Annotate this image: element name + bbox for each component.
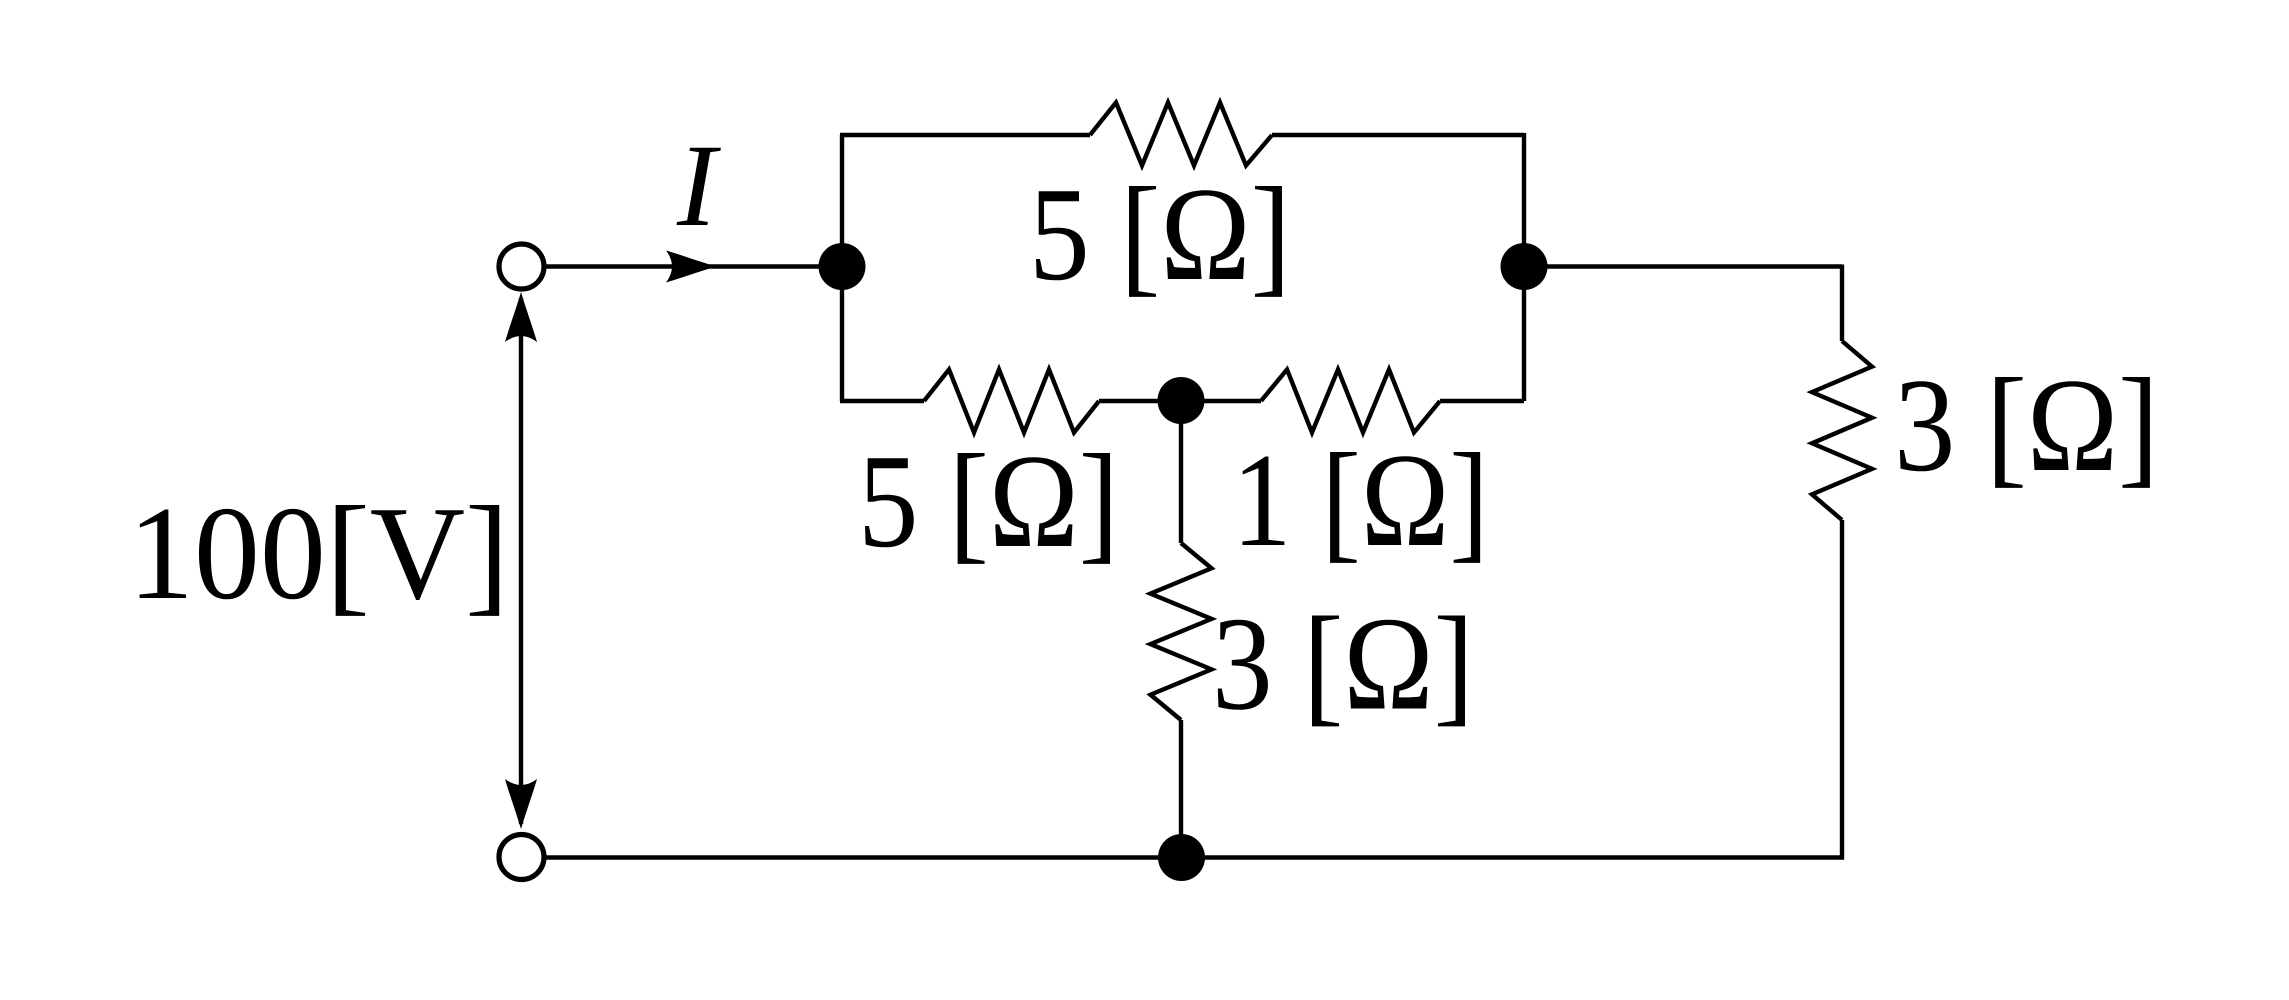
voltage double arrow shaft <box>519 298 523 824</box>
wire: top branch left vertical <box>840 135 844 267</box>
wire: middle branch left horizontal <box>840 399 924 403</box>
voltage arrowhead up <box>505 292 537 342</box>
wire: middle branch right vertical up <box>1522 267 1526 402</box>
wire: top branch right vertical <box>1522 133 1526 267</box>
wire: center node to 1 ohm <box>1181 399 1261 403</box>
terminal bottom (open circle) <box>499 835 544 880</box>
wire: right node to right branch corner <box>1524 264 1842 268</box>
svg-text:100[V]: 100[V] <box>128 479 509 627</box>
svg-text:I: I <box>676 120 721 251</box>
svg-text:1 [Ω]: 1 [Ω] <box>1232 426 1489 574</box>
node C: center junction dot <box>1158 377 1205 424</box>
wire: middle branch to center node <box>1099 399 1181 403</box>
resistor 5 ohm middle-left zigzag <box>924 370 1099 433</box>
wire: right branch vertical top <box>1840 265 1844 342</box>
svg-text:3 [Ω]: 3 [Ω] <box>1894 351 2159 499</box>
node B: right junction dot <box>1501 243 1548 290</box>
wire: top branch left horizontal <box>840 133 1090 137</box>
wire: bottom rail <box>547 855 1845 859</box>
wire: right branch vertical bottom <box>1840 520 1844 860</box>
svg-text:5 [Ω]: 5 [Ω] <box>858 427 1119 575</box>
voltage arrowhead down <box>505 779 537 829</box>
svg-text:5 [Ω]: 5 [Ω] <box>1029 160 1291 308</box>
wire: middle branch right horizontal <box>1440 399 1524 403</box>
wire: top branch right horizontal <box>1272 133 1524 137</box>
svg-text:3 [Ω]: 3 [Ω] <box>1212 590 1474 738</box>
wire: vertical resistor to bottom node <box>1179 720 1183 858</box>
resistor 3 ohm right zigzag <box>1812 341 1872 520</box>
wire: middle branch left vertical <box>840 267 844 402</box>
resistor 1 ohm middle-right zigzag <box>1261 370 1440 433</box>
resistor 5 ohm top zigzag <box>1090 103 1272 166</box>
wire: top terminal to left node <box>547 264 843 268</box>
terminal top (open circle) <box>499 244 544 289</box>
arrowhead current I on wire <box>666 251 716 283</box>
node A: left junction dot <box>819 243 866 290</box>
resistor 3 ohm vertical middle zigzag <box>1151 543 1212 720</box>
node D: bottom junction dot <box>1158 834 1205 881</box>
wire: center node down to vertical resistor <box>1179 401 1183 543</box>
